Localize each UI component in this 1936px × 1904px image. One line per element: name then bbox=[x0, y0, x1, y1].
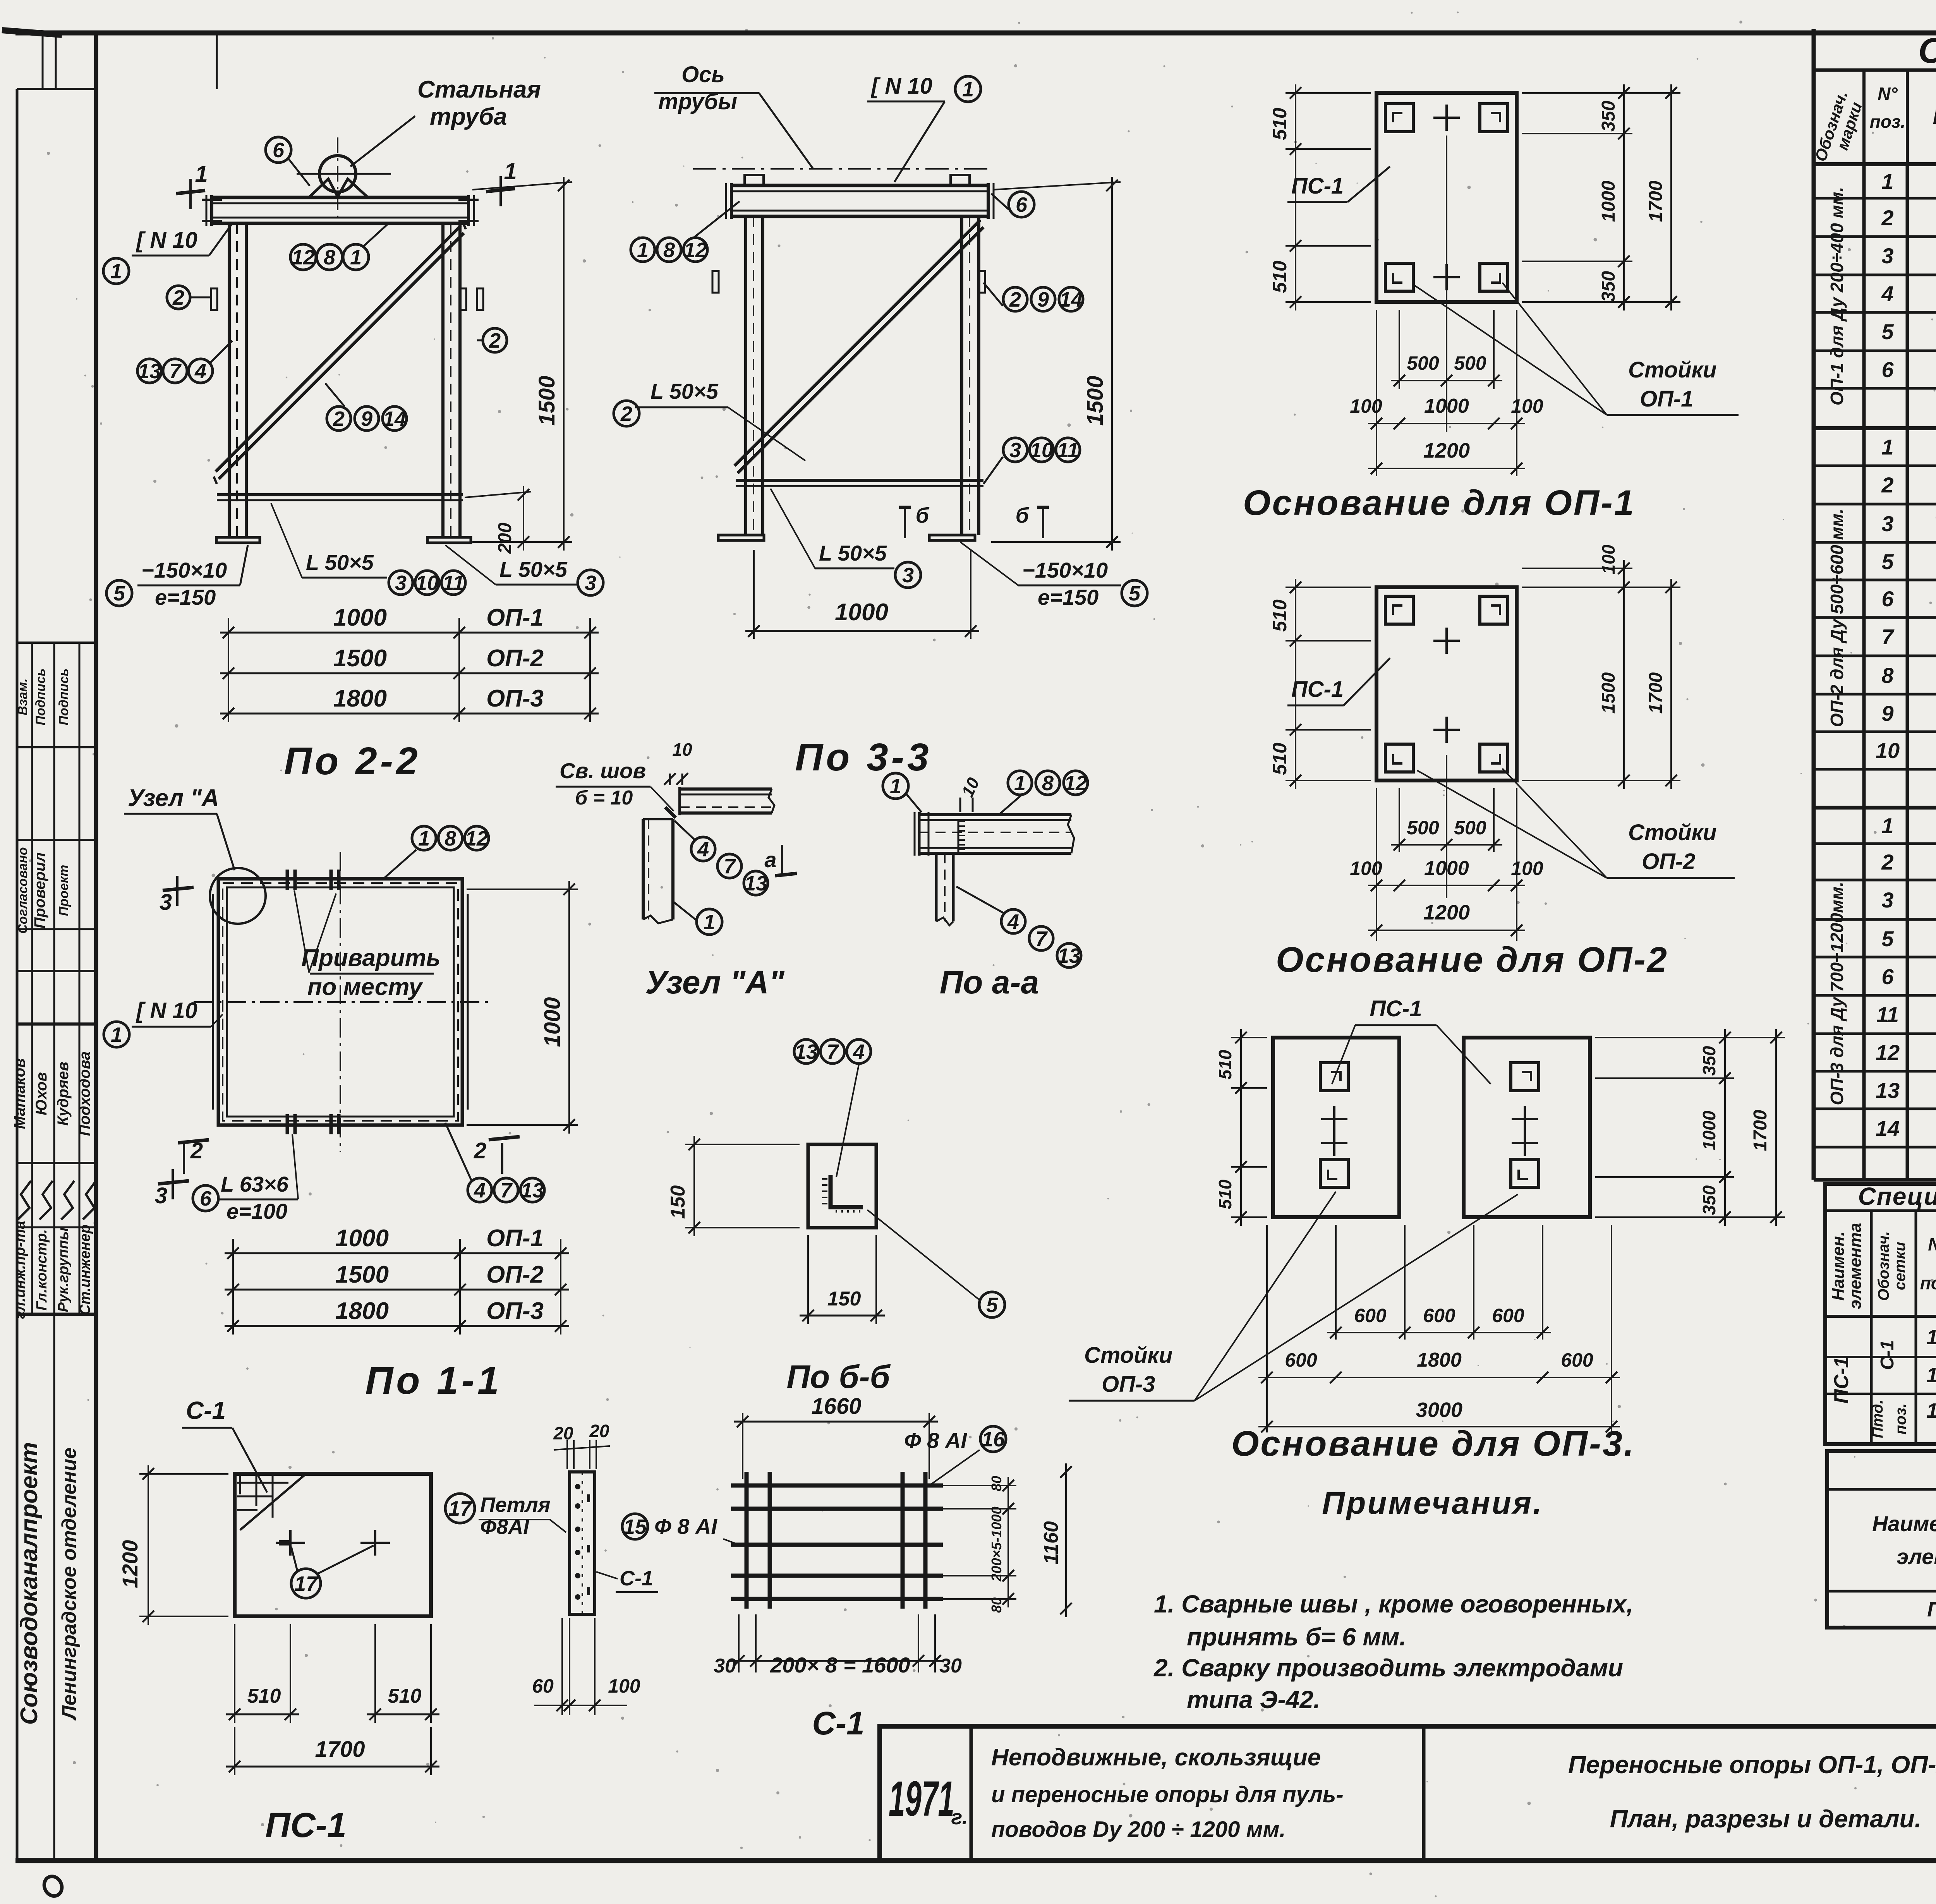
svg-text:4: 4 bbox=[853, 1040, 865, 1063]
svg-text:4: 4 bbox=[474, 1179, 486, 1202]
svg-text:5: 5 bbox=[113, 582, 125, 605]
svg-text:11: 11 bbox=[1057, 439, 1079, 462]
svg-text:8: 8 bbox=[1881, 663, 1894, 688]
svg-text:ПС-1: ПС-1 bbox=[265, 1806, 347, 1845]
svg-text:1000: 1000 bbox=[835, 599, 888, 626]
svg-text:План, разрезы и детали.: План, разрезы и детали. bbox=[1610, 1805, 1922, 1833]
svg-text:2: 2 bbox=[1009, 288, 1021, 311]
svg-text:1: 1 bbox=[1881, 435, 1893, 459]
svg-text:3000: 3000 bbox=[1416, 1398, 1462, 1422]
svg-text:2. Сварку производить электр: 2. Сварку производить электродами bbox=[1153, 1654, 1623, 1682]
svg-text:1: 1 bbox=[195, 161, 208, 187]
svg-text:60: 60 bbox=[532, 1675, 554, 1697]
svg-text:e=100: e=100 bbox=[227, 1199, 287, 1223]
svg-text:1000: 1000 bbox=[335, 1225, 389, 1252]
svg-text:1: 1 bbox=[504, 158, 517, 184]
svg-text:5: 5 bbox=[986, 1293, 998, 1317]
svg-text:Стойки: Стойки bbox=[1628, 357, 1716, 383]
svg-text:1700: 1700 bbox=[315, 1737, 365, 1762]
svg-text:ОП-3: ОП-3 bbox=[486, 1298, 544, 1324]
svg-text:600: 600 bbox=[1423, 1305, 1455, 1326]
svg-text:13: 13 bbox=[795, 1040, 818, 1063]
svg-text:80: 80 bbox=[989, 1597, 1004, 1613]
svg-text:ОП-3 для Ду 700÷1200мм.: ОП-3 для Ду 700÷1200мм. bbox=[1827, 882, 1847, 1105]
svg-text:100: 100 bbox=[608, 1675, 640, 1697]
svg-text:11: 11 bbox=[1876, 1002, 1899, 1027]
svg-text:10: 10 bbox=[672, 739, 692, 760]
svg-text:e=150: e=150 bbox=[1038, 585, 1098, 609]
svg-text:3: 3 bbox=[395, 571, 407, 595]
svg-text:2: 2 bbox=[474, 1138, 486, 1163]
svg-text:7: 7 bbox=[500, 1179, 513, 1202]
svg-text:б: б bbox=[916, 503, 930, 527]
svg-text:2: 2 bbox=[620, 402, 632, 425]
svg-text:1: 1 bbox=[418, 827, 430, 850]
svg-text:1: 1 bbox=[1881, 813, 1893, 838]
svg-text:17: 17 bbox=[448, 1497, 473, 1520]
svg-text:1700: 1700 bbox=[1646, 180, 1666, 222]
svg-text:7: 7 bbox=[724, 855, 736, 878]
svg-text:Основание для ОП-3.: Основание для ОП-3. bbox=[1231, 1424, 1635, 1463]
svg-text:N°: N° bbox=[1928, 1234, 1936, 1254]
svg-text:ОП-2: ОП-2 bbox=[486, 1261, 544, 1288]
svg-text:1200: 1200 bbox=[1423, 439, 1470, 462]
svg-text:[ N 10: [ N 10 bbox=[870, 74, 932, 99]
svg-text:б = 10: б = 10 bbox=[575, 787, 633, 809]
svg-text:5: 5 bbox=[1881, 319, 1894, 344]
svg-text:ОП-1: ОП-1 bbox=[486, 604, 544, 631]
svg-text:3: 3 bbox=[902, 564, 914, 587]
svg-text:13: 13 bbox=[1876, 1078, 1900, 1103]
svg-text:элемента: элемента bbox=[1846, 1223, 1865, 1309]
svg-text:10: 10 bbox=[415, 571, 439, 595]
svg-text:1500: 1500 bbox=[335, 1261, 389, 1288]
svg-text:ОП-1: ОП-1 bbox=[486, 1225, 544, 1252]
svg-text:11: 11 bbox=[443, 571, 464, 595]
svg-text:100: 100 bbox=[1350, 858, 1382, 879]
svg-text:Подпись: Подпись bbox=[33, 669, 48, 726]
svg-text:3: 3 bbox=[1009, 439, 1021, 462]
svg-text:6: 6 bbox=[200, 1187, 212, 1210]
svg-text:600: 600 bbox=[1354, 1305, 1387, 1326]
svg-text:510: 510 bbox=[388, 1685, 422, 1707]
svg-text:Стойки: Стойки bbox=[1084, 1343, 1172, 1368]
svg-text:17: 17 bbox=[1926, 1399, 1936, 1422]
svg-text:5: 5 bbox=[1129, 582, 1141, 605]
svg-text:Наименование: Наименование bbox=[1872, 1511, 1936, 1536]
svg-text:ПС-1: ПС-1 bbox=[1927, 1598, 1936, 1621]
svg-text:Птд.: Птд. bbox=[1869, 1400, 1886, 1438]
svg-text:Узел "А": Узел "А" bbox=[645, 964, 784, 1000]
svg-text:500: 500 bbox=[1454, 352, 1486, 374]
svg-text:2: 2 bbox=[190, 1138, 203, 1163]
svg-text:12: 12 bbox=[465, 827, 488, 850]
svg-text:1800: 1800 bbox=[333, 685, 387, 712]
svg-text:100: 100 bbox=[1511, 395, 1543, 417]
svg-text:30: 30 bbox=[714, 1655, 736, 1677]
svg-text:ОП-2: ОП-2 bbox=[486, 645, 544, 672]
svg-text:труба: труба bbox=[430, 103, 507, 130]
svg-text:1800: 1800 bbox=[1417, 1349, 1462, 1371]
svg-text:9: 9 bbox=[361, 407, 372, 431]
svg-text:1200: 1200 bbox=[1423, 901, 1470, 924]
svg-text:20: 20 bbox=[589, 1421, 609, 1441]
svg-text:L 63×6: L 63×6 bbox=[221, 1172, 289, 1196]
svg-text:20: 20 bbox=[553, 1423, 573, 1443]
svg-text:5: 5 bbox=[1881, 926, 1894, 951]
svg-text:[ N 10: [ N 10 bbox=[136, 998, 197, 1023]
svg-text:Примечания.: Примечания. bbox=[1322, 1485, 1543, 1521]
svg-text:1000: 1000 bbox=[1424, 395, 1469, 417]
svg-text:Рук.группы: Рук.группы bbox=[55, 1228, 72, 1312]
svg-text:1000: 1000 bbox=[1424, 857, 1469, 880]
svg-text:Спецификация: Спецификация bbox=[1918, 31, 1936, 70]
svg-text:Петля: Петля bbox=[480, 1493, 551, 1516]
svg-text:9: 9 bbox=[1881, 701, 1893, 726]
svg-text:e=150: e=150 bbox=[155, 585, 216, 609]
svg-text:−150×10: −150×10 bbox=[1022, 558, 1108, 582]
svg-text:Проект: Проект bbox=[57, 865, 71, 916]
svg-text:ОП-2 для Ду 500÷600 мм.: ОП-2 для Ду 500÷600 мм. bbox=[1827, 509, 1847, 727]
svg-text:Основание для ОП-2: Основание для ОП-2 bbox=[1276, 940, 1668, 979]
svg-text:L 50×5: L 50×5 bbox=[819, 541, 887, 565]
svg-text:1: 1 bbox=[1881, 169, 1893, 194]
svg-text:гл.инж.пр-та: гл.инж.пр-та bbox=[12, 1221, 28, 1319]
svg-text:По 1-1: По 1-1 bbox=[365, 1359, 502, 1402]
svg-text:6: 6 bbox=[1881, 357, 1894, 382]
svg-text:ОП-1 для Ду 200÷400 мм.: ОП-1 для Ду 200÷400 мм. bbox=[1827, 187, 1847, 406]
svg-text:15: 15 bbox=[1926, 1326, 1936, 1349]
svg-text:510: 510 bbox=[1269, 599, 1291, 632]
svg-text:3: 3 bbox=[155, 1183, 167, 1208]
svg-text:4: 4 bbox=[697, 838, 709, 861]
svg-text:Юхов: Юхов bbox=[33, 1072, 50, 1115]
svg-text:100: 100 bbox=[1350, 395, 1382, 417]
svg-text:80: 80 bbox=[989, 1476, 1004, 1491]
svg-text:принять б= 6 мм.: принять б= 6 мм. bbox=[1187, 1623, 1406, 1651]
svg-text:7: 7 bbox=[1881, 624, 1895, 649]
svg-text:2: 2 bbox=[1881, 473, 1893, 497]
svg-text:ПС-1: ПС-1 bbox=[1291, 173, 1344, 199]
svg-text:С-1: С-1 bbox=[620, 1567, 653, 1590]
svg-text:Гл.констр.: Гл.констр. bbox=[34, 1229, 50, 1311]
svg-text:Взам.: Взам. bbox=[15, 678, 30, 715]
svg-text:1: 1 bbox=[111, 1023, 122, 1046]
svg-text:Ленинградское отделение: Ленинградское отделение bbox=[58, 1448, 81, 1721]
svg-text:3: 3 bbox=[585, 571, 596, 595]
svg-text:13: 13 bbox=[1057, 944, 1081, 967]
svg-text:ПС-1: ПС-1 bbox=[1830, 1357, 1853, 1403]
svg-text:Основание для ОП-1: Основание для ОП-1 bbox=[1243, 483, 1636, 523]
svg-text:С-1: С-1 bbox=[1877, 1340, 1898, 1370]
svg-text:Проверил: Проверил bbox=[31, 852, 48, 928]
svg-text:1. Сварные швы , кроме огово: 1. Сварные швы , кроме оговоренных, bbox=[1154, 1590, 1633, 1618]
svg-text:350: 350 bbox=[1699, 1046, 1719, 1076]
svg-text:200×5-1000: 200×5-1000 bbox=[989, 1506, 1004, 1582]
svg-text:12: 12 bbox=[292, 246, 315, 269]
svg-text:Ф 8 АI: Ф 8 АI bbox=[904, 1428, 967, 1453]
svg-text:12: 12 bbox=[1064, 772, 1087, 795]
svg-text:ОП-2: ОП-2 bbox=[1642, 849, 1695, 874]
svg-text:100: 100 bbox=[1598, 544, 1618, 574]
svg-text:1000: 1000 bbox=[540, 997, 565, 1047]
svg-text:1500: 1500 bbox=[1598, 672, 1619, 714]
svg-text:510: 510 bbox=[1269, 108, 1291, 140]
svg-text:500: 500 bbox=[1407, 817, 1439, 839]
svg-text:Согласовано: Согласовано bbox=[15, 847, 30, 934]
svg-text:14: 14 bbox=[1059, 288, 1083, 311]
svg-text:1: 1 bbox=[962, 78, 974, 101]
svg-text:4: 4 bbox=[1007, 910, 1019, 933]
svg-text:1: 1 bbox=[1014, 772, 1026, 795]
svg-text:Приварить: Приварить bbox=[301, 945, 440, 971]
svg-text:150: 150 bbox=[827, 1288, 861, 1310]
svg-text:Стальная: Стальная bbox=[417, 76, 541, 103]
svg-text:12: 12 bbox=[684, 238, 707, 262]
svg-text:L 50×5: L 50×5 bbox=[650, 379, 719, 403]
svg-text:10: 10 bbox=[1030, 439, 1053, 462]
svg-text:3: 3 bbox=[160, 890, 172, 915]
svg-text:3: 3 bbox=[1881, 511, 1893, 536]
svg-text:10: 10 bbox=[1876, 738, 1900, 763]
svg-text:1: 1 bbox=[350, 246, 362, 269]
svg-text:6: 6 bbox=[1881, 964, 1894, 989]
svg-text:1971: 1971 bbox=[889, 1771, 954, 1827]
svg-text:1: 1 bbox=[110, 260, 122, 283]
svg-text:600: 600 bbox=[1492, 1305, 1524, 1326]
svg-text:б: б bbox=[1016, 503, 1030, 527]
svg-text:a: a bbox=[764, 847, 776, 872]
svg-text:2: 2 bbox=[489, 329, 501, 352]
svg-text:1700: 1700 bbox=[1750, 1110, 1771, 1151]
svg-text:Подпись: Подпись bbox=[57, 669, 71, 726]
svg-text:1000: 1000 bbox=[1699, 1110, 1719, 1150]
svg-text:1500: 1500 bbox=[534, 376, 560, 425]
svg-text:500: 500 bbox=[1454, 817, 1486, 839]
svg-text:8: 8 bbox=[663, 238, 675, 262]
svg-text:Профиль: Профиль bbox=[1933, 101, 1936, 129]
svg-text:Св. шов: Св. шов bbox=[560, 758, 646, 783]
svg-text:14: 14 bbox=[383, 407, 406, 431]
svg-text:510: 510 bbox=[247, 1685, 281, 1707]
svg-text:150: 150 bbox=[667, 1185, 689, 1219]
svg-text:ОП-1: ОП-1 bbox=[1640, 386, 1693, 412]
svg-text:1200: 1200 bbox=[118, 1540, 142, 1588]
svg-text:поз.: поз. bbox=[1892, 1403, 1909, 1434]
svg-text:1: 1 bbox=[637, 238, 649, 262]
svg-text:16: 16 bbox=[982, 1428, 1005, 1451]
svg-text:поз.: поз. bbox=[1870, 111, 1905, 132]
svg-text:Спецификация арматуры на 1 эле: Спецификация арматуры на 1 элемент bbox=[1858, 1182, 1936, 1210]
svg-text:510: 510 bbox=[1215, 1179, 1235, 1209]
svg-text:поводов Dy 200 ÷ 1200 мм.: поводов Dy 200 ÷ 1200 мм. bbox=[991, 1817, 1286, 1842]
svg-text:С-1: С-1 bbox=[186, 1396, 226, 1424]
svg-text:600: 600 bbox=[1285, 1349, 1317, 1371]
svg-text:Ст.инженер: Ст.инженер bbox=[77, 1225, 93, 1315]
svg-text:7: 7 bbox=[169, 360, 182, 383]
svg-text:3: 3 bbox=[1881, 888, 1893, 912]
svg-text:100: 100 bbox=[1511, 858, 1543, 879]
svg-text:9: 9 bbox=[1037, 288, 1049, 311]
svg-text:2: 2 bbox=[1881, 850, 1893, 874]
svg-text:По 3-3: По 3-3 bbox=[795, 736, 932, 779]
svg-text:1500: 1500 bbox=[1083, 376, 1108, 425]
svg-text:По б-б: По б-б bbox=[786, 1359, 891, 1395]
svg-text:200× 8 = 1600: 200× 8 = 1600 bbox=[770, 1653, 910, 1677]
svg-text:13: 13 bbox=[521, 1179, 544, 1202]
svg-text:1: 1 bbox=[890, 775, 901, 798]
svg-text:Наимен.: Наимен. bbox=[1829, 1232, 1848, 1301]
svg-text:1: 1 bbox=[704, 911, 715, 934]
svg-text:Узел "А: Узел "А bbox=[128, 785, 219, 811]
svg-text:30: 30 bbox=[939, 1655, 962, 1677]
svg-text:6: 6 bbox=[273, 139, 285, 162]
svg-text:510: 510 bbox=[1215, 1050, 1235, 1079]
svg-text:Переносные опоры ОП-1, ОП-2,: Переносные опоры ОП-1, ОП-2, ОП-3. bbox=[1568, 1751, 1936, 1779]
svg-text:ПС-1: ПС-1 bbox=[1291, 677, 1344, 702]
svg-text:и переносные опоры для пуль-: и переносные опоры для пуль- bbox=[991, 1782, 1344, 1807]
svg-text:Кудряев: Кудряев bbox=[55, 1062, 72, 1125]
svg-text:Обознач.: Обознач. bbox=[1875, 1231, 1892, 1301]
svg-text:2: 2 bbox=[333, 407, 345, 431]
svg-text:г.: г. bbox=[951, 1806, 968, 1829]
svg-text:По а-а: По а-а bbox=[940, 964, 1039, 1000]
svg-text:13: 13 bbox=[138, 360, 161, 383]
svg-text:Подходова: Подходова bbox=[76, 1051, 93, 1136]
svg-text:L 50×5: L 50×5 bbox=[499, 557, 568, 581]
svg-text:по месту: по месту bbox=[307, 974, 424, 1000]
svg-text:1800: 1800 bbox=[335, 1298, 389, 1324]
svg-text:8: 8 bbox=[445, 827, 456, 850]
svg-text:16: 16 bbox=[1926, 1364, 1936, 1387]
svg-text:8: 8 bbox=[1042, 772, 1054, 795]
svg-text:200: 200 bbox=[495, 523, 515, 554]
svg-text:ОП-3: ОП-3 bbox=[1102, 1372, 1155, 1397]
svg-text:6: 6 bbox=[1881, 587, 1894, 611]
svg-text:типа Э-42.: типа Э-42. bbox=[1187, 1686, 1320, 1714]
svg-text:5: 5 bbox=[1881, 549, 1894, 574]
svg-text:350: 350 bbox=[1598, 101, 1619, 132]
svg-text:поз.: поз. bbox=[1920, 1273, 1936, 1293]
svg-text:510: 510 bbox=[1269, 261, 1291, 293]
svg-text:ПС-1: ПС-1 bbox=[1370, 996, 1422, 1021]
svg-text:12: 12 bbox=[1876, 1040, 1900, 1065]
svg-text:500: 500 bbox=[1407, 352, 1439, 374]
svg-text:ОП-3: ОП-3 bbox=[486, 685, 544, 712]
svg-text:1160: 1160 bbox=[1040, 1521, 1062, 1564]
svg-text:1660: 1660 bbox=[811, 1394, 861, 1419]
svg-text:3: 3 bbox=[1881, 244, 1893, 268]
svg-text:15: 15 bbox=[623, 1515, 647, 1539]
svg-text:350: 350 bbox=[1598, 271, 1619, 302]
svg-text:Союзводоканалпроект: Союзводоканалпроект bbox=[16, 1442, 43, 1725]
svg-text:С-1: С-1 bbox=[812, 1705, 864, 1741]
svg-text:Неподвижные, скользящие: Неподвижные, скользящие bbox=[991, 1744, 1321, 1771]
svg-text:13: 13 bbox=[744, 872, 767, 895]
svg-text:1000: 1000 bbox=[333, 604, 387, 631]
svg-text:N°: N° bbox=[1878, 84, 1898, 104]
svg-text:6: 6 bbox=[1016, 193, 1028, 216]
svg-text:элемента: элемента bbox=[1897, 1544, 1936, 1569]
svg-text:Стойки: Стойки bbox=[1628, 820, 1716, 845]
svg-text:17: 17 bbox=[294, 1572, 319, 1595]
svg-text:По 2-2: По 2-2 bbox=[284, 739, 420, 783]
svg-text:−150×10: −150×10 bbox=[141, 558, 227, 582]
svg-text:7: 7 bbox=[827, 1040, 839, 1063]
svg-text:600: 600 bbox=[1561, 1349, 1593, 1371]
svg-text:350: 350 bbox=[1699, 1185, 1719, 1215]
svg-text:Ось: Ось bbox=[681, 62, 725, 87]
svg-text:510: 510 bbox=[1269, 743, 1291, 775]
svg-text:14: 14 bbox=[1876, 1116, 1900, 1141]
svg-text:L 50×5: L 50×5 bbox=[306, 550, 374, 575]
svg-text:2: 2 bbox=[1881, 206, 1893, 230]
svg-text:1000: 1000 bbox=[1598, 180, 1619, 222]
svg-text:4: 4 bbox=[1881, 281, 1893, 306]
svg-text:1500: 1500 bbox=[333, 645, 387, 672]
svg-text:7: 7 bbox=[1035, 927, 1048, 950]
svg-text:4: 4 bbox=[194, 360, 206, 383]
svg-text:сетки: сетки bbox=[1891, 1242, 1909, 1290]
svg-text:Матаков: Матаков bbox=[11, 1058, 28, 1129]
svg-text:[ N 10: [ N 10 bbox=[136, 228, 197, 253]
svg-text:Ф 8 АI: Ф 8 АI bbox=[654, 1514, 717, 1539]
svg-text:8: 8 bbox=[324, 246, 335, 269]
svg-text:1700: 1700 bbox=[1646, 672, 1666, 714]
svg-text:2: 2 bbox=[172, 286, 184, 309]
